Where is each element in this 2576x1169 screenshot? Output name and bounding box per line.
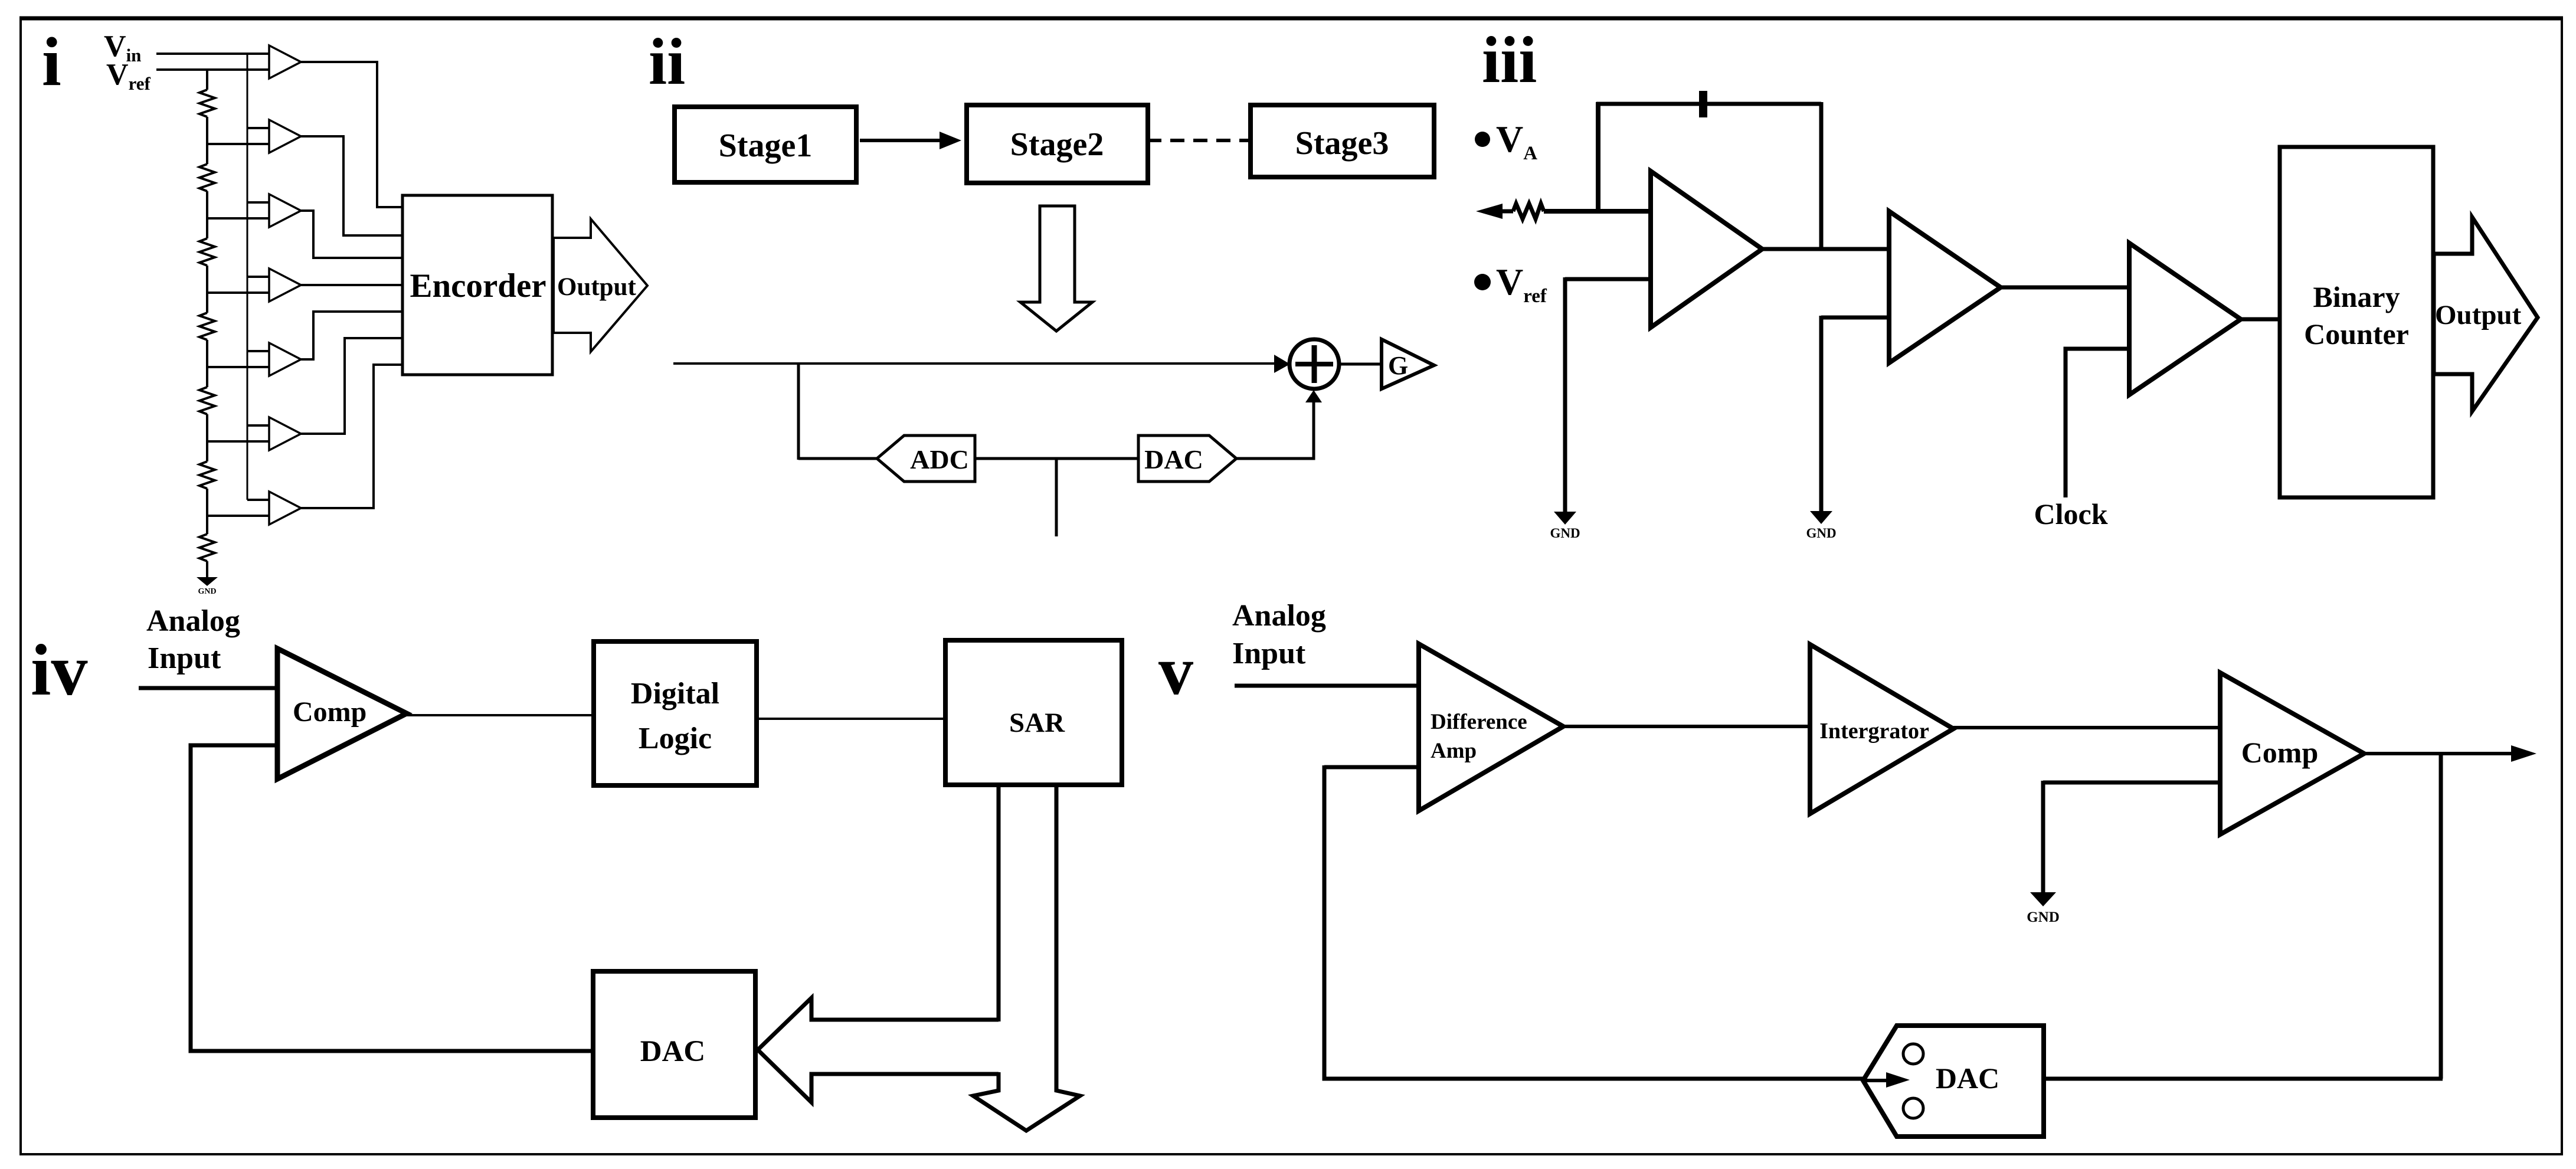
wire comp output with arrow: [2364, 752, 2531, 755]
block Stage3: [1251, 105, 1434, 177]
wire ladder segment 2: [206, 191, 208, 238]
svg-text:Stage2: Stage2: [1010, 126, 1104, 163]
wire ladder segment 5: [206, 414, 208, 461]
wire analog input iv: [139, 686, 277, 690]
comparator U3 clocked: [2129, 243, 2241, 395]
svg-text:Binary: Binary: [2313, 280, 2400, 313]
svg-text:GND: GND: [2027, 909, 2060, 925]
wire op-amp1 output: [1762, 247, 1889, 251]
wire DAC output line v: [2044, 1077, 2443, 1081]
block SAR: [945, 640, 1122, 785]
wire U2 output: [2001, 286, 2129, 290]
wire integrator output: [1953, 726, 2220, 729]
resistor R2: [199, 164, 215, 191]
svg-text:Analog: Analog: [1232, 599, 1326, 633]
svg-text:Counter: Counter: [2304, 317, 2409, 351]
node tap 1 wire: [207, 143, 269, 145]
svg-text:Comp: Comp: [293, 696, 366, 728]
comparator U1: [269, 45, 301, 78]
block ADC: [877, 435, 975, 482]
wire feedback right leg v: [2439, 754, 2443, 1079]
node VA bullet: [1475, 132, 1490, 147]
svg-text:GND: GND: [1806, 526, 1836, 541]
wire ladder segment top: [206, 68, 208, 90]
wire bus stub comparator 7: [247, 499, 269, 501]
svg-text:DAC: DAC: [1144, 444, 1203, 474]
node tap 6 wire: [207, 515, 269, 517]
block arrow down from SAR shaft left: [997, 785, 1001, 1021]
block Stage1: [675, 107, 856, 182]
wire comparator3 to encoder: [301, 211, 402, 258]
wire feedback top: [1596, 102, 1821, 106]
wire DAC feedback to comp: [191, 745, 593, 1051]
block digital logic: [594, 641, 757, 785]
svg-text:Comp: Comp: [2241, 736, 2319, 769]
svg-text:Intergrator: Intergrator: [1819, 719, 1929, 744]
svg-text:DAC: DAC: [640, 1035, 706, 1068]
wire comp lower input: [2043, 781, 2220, 785]
DAC pin circle top: [1903, 1044, 1923, 1064]
node tap 5 wire: [207, 440, 269, 443]
ground GND v: [2030, 892, 2056, 906]
wire ladder segment 3: [206, 266, 208, 313]
wire ladder segment to ground: [206, 561, 208, 577]
ground GND2: [1810, 511, 1832, 524]
wire Vref input lower: [1565, 277, 1651, 281]
comparator U5: [269, 343, 301, 376]
svg-text:Analog: Analog: [146, 604, 240, 638]
wire feedback left leg: [1596, 102, 1600, 212]
svg-text:Clock: Clock: [2034, 497, 2108, 531]
wire Vref to ground: [1563, 277, 1567, 512]
wire ladder segment 6: [206, 489, 208, 534]
node tap 3 wire: [207, 292, 269, 294]
comparator U4: [269, 268, 301, 302]
wire bus stub comparator 5: [247, 350, 269, 352]
resistor R6: [199, 461, 215, 489]
svg-text:Digital: Digital: [631, 677, 719, 710]
wire branch to ADC: [798, 457, 877, 460]
wire into DAC v with arrow: [1863, 1079, 1886, 1082]
svg-text:GND: GND: [198, 587, 216, 596]
resistor R3: [199, 238, 215, 266]
comparator U7: [269, 492, 301, 525]
resistor R1: [199, 90, 215, 117]
svg-text:ADC: ADC: [910, 444, 969, 474]
resistor Rin: [1513, 204, 1544, 219]
block Stage2: [967, 105, 1148, 183]
comparator U3: [269, 194, 301, 227]
resistor R5: [199, 387, 215, 414]
ground GND1: [1554, 512, 1576, 525]
encoder block: [402, 195, 552, 375]
wire comp output to digital logic: [407, 714, 594, 716]
block binary counter: [2280, 147, 2433, 497]
wire comparator4 to encoder: [301, 284, 402, 286]
wire summing node to G: [1339, 363, 1382, 366]
wire analog input v: [1235, 684, 1419, 688]
comparator Comp iv: [277, 649, 407, 779]
svg-text:Input: Input: [1232, 637, 1306, 670]
svg-text:Difference: Difference: [1431, 710, 1527, 734]
wire Vin input: [156, 53, 269, 55]
resistor R7: [199, 534, 215, 561]
wire DAC to summing node: [1236, 400, 1314, 459]
wire comparator2 to encoder: [301, 136, 402, 235]
wire clock input: [2066, 349, 2129, 497]
comparator U6: [269, 417, 301, 450]
wire comparator1 to encoder: [301, 62, 402, 207]
block DAC iv: [593, 971, 755, 1118]
capacitor C1 tick: [1699, 91, 1707, 117]
svg-text:i: i: [42, 23, 61, 100]
wire stub down from ADC-DAC line: [1055, 459, 1058, 536]
block arrow down from Stage2: [1020, 206, 1092, 331]
amplifier integrator: [1810, 644, 1953, 814]
svg-text:GND: GND: [1550, 526, 1580, 541]
amplifier G: [1382, 339, 1434, 389]
ground ladder GND: [197, 577, 218, 586]
resistor R4: [199, 313, 215, 340]
wire comparator5 to encoder: [301, 312, 402, 359]
block DAC: [1138, 435, 1236, 482]
wire ladder segment 4: [206, 340, 208, 387]
amplifier U2: [1889, 211, 2001, 363]
node Vref bullet: [1474, 274, 1491, 290]
svg-text:Logic: Logic: [639, 722, 712, 755]
svg-text:iii: iii: [1482, 24, 1537, 97]
wire resistor to op-amp: [1544, 209, 1651, 214]
op-amp U1: [1651, 171, 1762, 328]
block DAC v: [1863, 1026, 2044, 1137]
wire bus stub comparator 3: [247, 201, 269, 204]
comparator U2: [269, 120, 301, 153]
svg-text:Output: Output: [2435, 300, 2522, 330]
wire bus stub comparator 6: [247, 424, 269, 427]
wire Vref input: [156, 68, 269, 71]
wire bus stub comparator 2: [247, 127, 269, 129]
amplifier difference amp: [1419, 644, 1563, 811]
wire main line ii: [673, 362, 1281, 365]
wire feedback right leg: [1819, 102, 1824, 249]
DAC pin circle bottom: [1903, 1098, 1923, 1118]
wire input with left arrow: [1487, 209, 1513, 214]
block arrow left into DAC: [758, 998, 999, 1102]
svg-text:Encorder: Encorder: [410, 267, 546, 304]
output block arrow i: [554, 219, 647, 352]
comparator Comp v: [2220, 673, 2364, 834]
wire ladder segment 1: [206, 117, 208, 164]
wire feedback bottom to diff amp: [1324, 765, 1863, 1079]
wire feedback lower input: [1324, 765, 1419, 769]
wire arrow Stage1 to Stage2: [860, 139, 944, 142]
svg-text:SAR: SAR: [1009, 708, 1065, 738]
svg-text:iv: iv: [31, 630, 87, 710]
wire bus stub comparator 4: [247, 276, 269, 278]
svg-text:ii: ii: [649, 25, 685, 99]
output block arrow iii: [2434, 217, 2538, 411]
svg-text:Amp: Amp: [1431, 739, 1477, 763]
block arrow down from SAR shaft right and head: [973, 785, 1080, 1131]
wire diff amp output: [1563, 725, 1810, 728]
wire branch down: [797, 364, 800, 460]
svg-text:v: v: [1158, 632, 1193, 709]
wire comp lower input to ground: [2041, 781, 2045, 892]
wire comparator6 to encoder: [301, 338, 402, 434]
svg-text:Input: Input: [148, 641, 221, 675]
svg-text:Output: Output: [557, 273, 637, 301]
node tap 2 wire: [207, 217, 269, 220]
wire comparator7 to encoder: [301, 365, 402, 508]
wire dashed Stage2 to Stage3: [1147, 139, 1251, 142]
summing node: [1289, 339, 1339, 389]
wire digital logic to SAR: [757, 718, 945, 720]
wire Vin bus vertical: [247, 53, 248, 500]
node tap 4 wire: [207, 366, 269, 368]
svg-text:Stage3: Stage3: [1295, 125, 1389, 162]
wire U3 output to counter: [2241, 317, 2280, 322]
wire ADC to DAC: [975, 457, 1138, 460]
svg-text:Stage1: Stage1: [719, 127, 813, 164]
svg-text:DAC: DAC: [1936, 1062, 1999, 1095]
svg-text:G: G: [1388, 351, 1408, 380]
wire U2 lower input: [1821, 316, 1889, 320]
wire U2 lower input to ground: [1819, 316, 1824, 511]
